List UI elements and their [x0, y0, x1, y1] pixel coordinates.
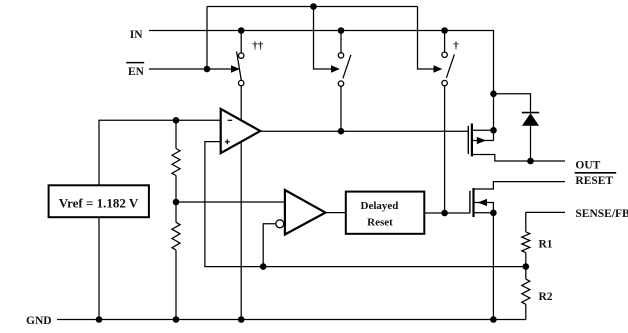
svg-text:OUT: OUT	[575, 159, 600, 171]
svg-text:SENSE/FB: SENSE/FB	[575, 208, 628, 220]
svg-text:EN: EN	[128, 66, 145, 78]
svg-text:RESET: RESET	[575, 175, 613, 187]
svg-text:R1: R1	[539, 239, 553, 251]
svg-text:Reset: Reset	[367, 216, 393, 228]
svg-text:Vref = 1.182 V: Vref = 1.182 V	[59, 195, 139, 210]
svg-text:Delayed: Delayed	[361, 200, 399, 212]
svg-text:†: †	[453, 40, 459, 52]
svg-text:††: ††	[252, 40, 263, 52]
svg-text:IN: IN	[130, 29, 143, 41]
svg-text:GND: GND	[26, 315, 52, 327]
svg-text:R2: R2	[539, 291, 553, 303]
